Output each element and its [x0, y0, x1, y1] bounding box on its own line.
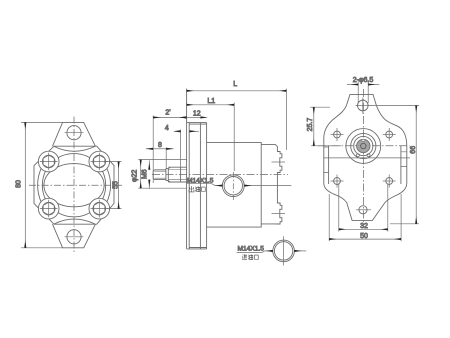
shaft collar — [166, 169, 168, 181]
spline notch right — [367, 154, 370, 157]
rear view vertical centerline — [362, 89, 364, 227]
dimension 50 — [329, 194, 401, 241]
bolt lobe top-left — [38, 151, 59, 172]
rear port boss top centerline — [272, 161, 286, 163]
keyway notch — [362, 139, 365, 141]
boss sag arc right — [106, 167, 110, 203]
flange bottom tab — [53, 224, 96, 248]
flange top tab hole — [67, 126, 81, 140]
dimension 25.7 — [310, 107, 341, 146]
dimension 80 left — [21, 122, 63, 247]
shaft spline hub — [168, 167, 186, 182]
flange plate boss rear line — [188, 123, 190, 249]
rear cover outline — [261, 145, 282, 224]
bolt lobe top-right — [89, 151, 110, 172]
svg-text:32: 32 — [360, 223, 368, 230]
svg-text:55: 55 — [113, 181, 120, 189]
bolt hole bottom-right — [91, 200, 109, 218]
flange centerline horizontal — [29, 184, 122, 186]
corner hole bottom-right — [386, 178, 393, 185]
svg-text:80: 80 — [16, 180, 23, 188]
flange plate bottom edge — [187, 248, 207, 250]
svg-text:L: L — [233, 81, 237, 88]
top tab hole — [358, 100, 369, 111]
bolt hole top-left — [40, 153, 58, 171]
rear cover outline — [324, 94, 407, 220]
flange plate top edge — [187, 122, 207, 124]
dimension 2' — [153, 116, 186, 184]
gear housing ellipse — [44, 164, 104, 207]
bottom tab hole — [359, 206, 367, 214]
boss sag arc bottom — [54, 219, 95, 224]
port circle outer — [222, 175, 244, 197]
pump body circle behind flange — [42, 154, 105, 217]
shaft circle outer — [346, 129, 381, 164]
body silhouette step ticks — [324, 147, 407, 173]
boss sag arc left — [38, 167, 42, 203]
flange bottom tab hole — [67, 230, 81, 244]
shaft axis centerline — [152, 174, 288, 176]
svg-text:12: 12 — [193, 111, 201, 118]
dimension 8 — [146, 148, 174, 170]
svg-text:66: 66 — [410, 146, 417, 154]
dimension 55 right — [104, 162, 122, 209]
dimension 66 — [370, 106, 419, 224]
bolt hole top-right — [91, 153, 109, 171]
dimension phi22 — [138, 160, 186, 189]
svg-text:2': 2' — [165, 110, 170, 117]
body silhouette left edge — [328, 146, 330, 185]
inlet port detail circle inner — [274, 242, 292, 260]
shaft inner circle — [361, 143, 366, 148]
inlet port detail crosshair — [283, 236, 285, 265]
port circle inner — [224, 177, 242, 195]
spline notch left — [356, 154, 359, 157]
svg-text:8: 8 — [158, 142, 162, 149]
corner hole bottom-left — [334, 178, 341, 185]
pump body outline — [207, 142, 262, 227]
svg-text:2-φ6.5: 2-φ6.5 — [353, 77, 374, 84]
svg-text:M14X1.5: M14X1.5 — [238, 246, 265, 253]
bolt lobe bottom-left — [38, 198, 59, 219]
shaft end gray disc — [357, 139, 370, 152]
dimension M6 — [148, 161, 150, 189]
svg-text:M6: M6 — [141, 169, 148, 179]
outlet port label M14X1.5 — [187, 184, 291, 186]
svg-text:25.7: 25.7 — [307, 118, 314, 132]
bolt lobe bottom-right — [89, 198, 110, 219]
rear port boss bottom centerline — [272, 213, 286, 215]
rear view shaft axis horizontal — [318, 145, 410, 147]
corner hole top-right — [386, 131, 393, 138]
svg-text:50: 50 — [360, 233, 368, 240]
shaft circle second — [351, 133, 376, 158]
flange plate front face — [186, 89, 188, 249]
flange centerline vertical — [73, 117, 75, 254]
shaft thread root lines — [155, 170, 166, 172]
shaft groove — [180, 167, 182, 182]
dimension L1 — [187, 103, 235, 171]
flange octagon outline — [34, 146, 114, 224]
corner hole top-left — [334, 131, 341, 138]
port circle centerline — [232, 172, 234, 200]
flange plate rear face — [206, 123, 208, 249]
dimension 12 — [181, 116, 206, 118]
svg-text:L1: L1 — [207, 98, 215, 105]
dimension 32 — [339, 184, 388, 232]
inlet port detail circle outer — [273, 240, 295, 262]
flange plate mid line — [199, 123, 201, 249]
shaft spline bore circle — [354, 136, 373, 155]
boss sag arc top — [54, 146, 95, 151]
inlet port label M14X1.5 — [237, 251, 307, 253]
svg-text:4: 4 — [165, 125, 169, 132]
shaft threaded end — [153, 170, 166, 180]
dimension L — [187, 89, 287, 150]
body silhouette right edge — [400, 146, 402, 185]
rear ports axis line — [324, 157, 410, 159]
svg-text:M14X1.5: M14X1.5 — [187, 178, 214, 185]
bolt hole bottom-left — [40, 200, 58, 218]
flange top tab — [53, 122, 96, 146]
dimension 2-phi6.5 — [347, 80, 379, 103]
svg-text:φ22: φ22 — [132, 170, 139, 182]
shaft spline minor lines — [168, 169, 186, 171]
dimension 4 — [175, 130, 199, 168]
shaft crosshair vertical — [362, 127, 364, 165]
